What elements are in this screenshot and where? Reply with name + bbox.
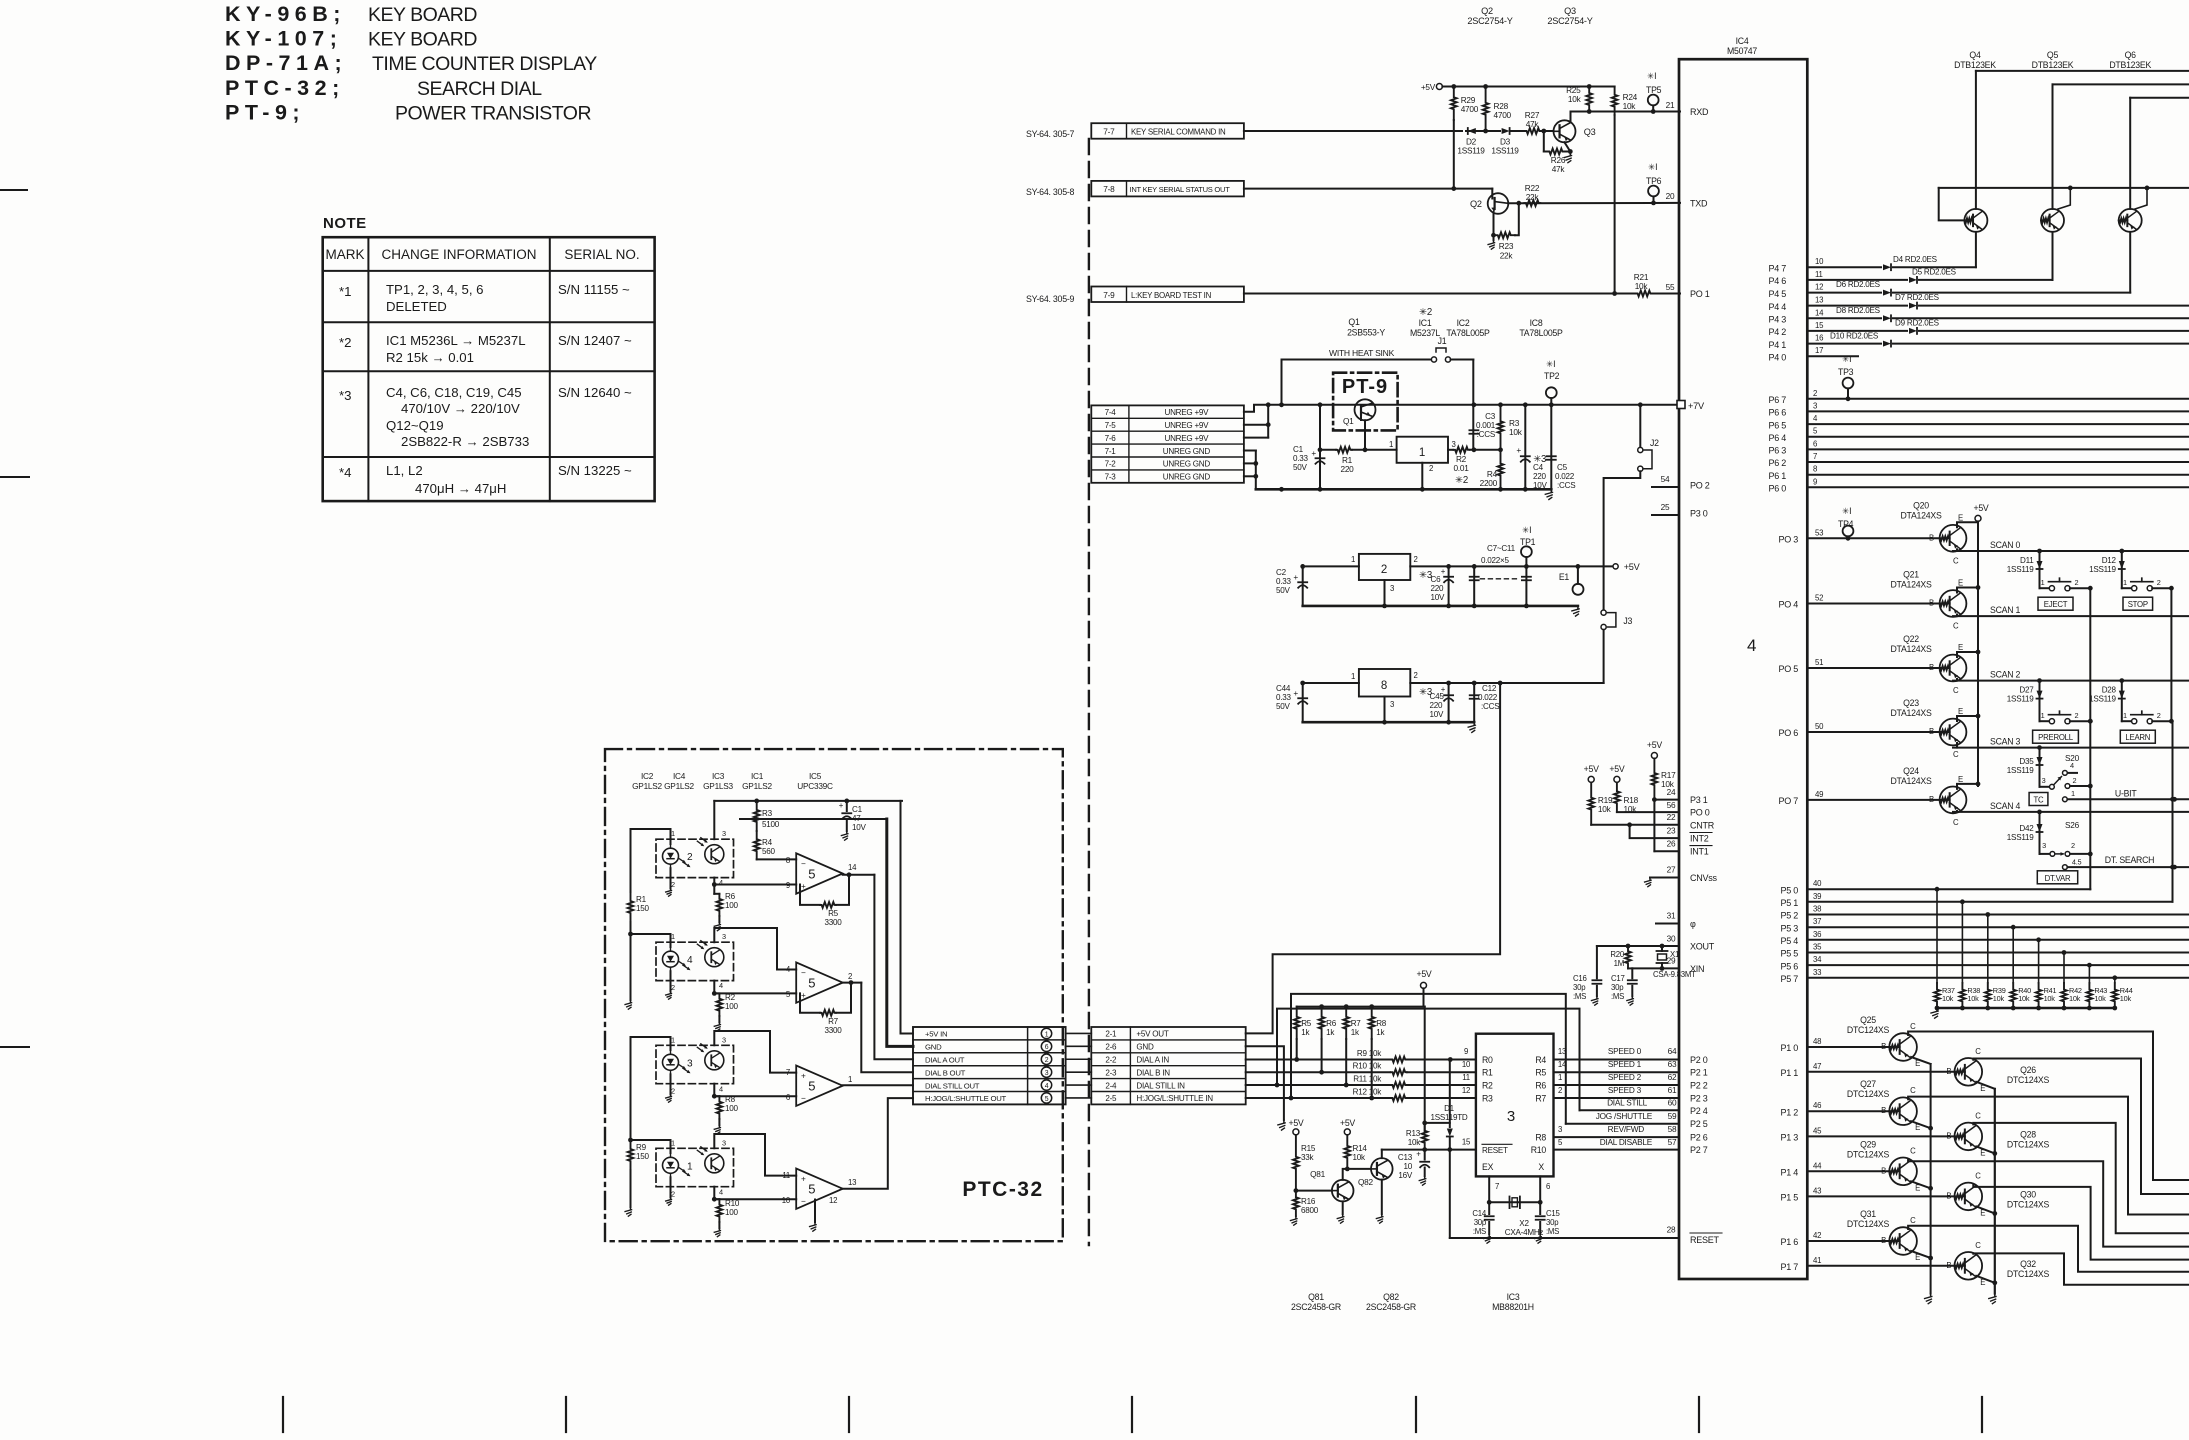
capacitor C2 0.33 50V	[1276, 566, 1307, 606]
svg-text:2: 2	[1558, 1086, 1562, 1095]
svg-text:CHANGE INFORMATION: CHANGE INFORMATION	[382, 247, 537, 262]
svg-text:C: C	[1953, 622, 1959, 631]
svg-text:D5 RD2.0ES: D5 RD2.0ES	[1912, 268, 1957, 277]
svg-text:P5 2: P5 2	[1780, 911, 1798, 921]
svg-text:C12: C12	[1482, 684, 1497, 693]
svg-text:Q1: Q1	[1343, 417, 1354, 426]
svg-text:P6 7: P6 7	[1768, 395, 1786, 405]
svg-text:B: B	[1929, 795, 1934, 804]
svg-text:P5 1: P5 1	[1780, 898, 1798, 908]
svg-text:Q30: Q30	[2020, 1189, 2036, 1199]
svg-text:C44: C44	[1276, 684, 1291, 693]
svg-text:DT.VAR: DT.VAR	[2045, 874, 2071, 883]
svg-text:2: 2	[1413, 671, 1417, 680]
svg-text:470μH → 47μH: 470μH → 47μH	[415, 481, 506, 496]
wire opto3 to op-amp C - input	[712, 1084, 796, 1099]
capacitor C4 220 10V	[1516, 405, 1547, 490]
svg-text:DTB123EK: DTB123EK	[2109, 60, 2151, 70]
ground rail regulator 2	[1303, 604, 1579, 617]
op-amp 5 section B	[786, 962, 861, 1002]
svg-text:+: +	[839, 801, 844, 810]
IC4 pin 54 stub	[1652, 475, 1679, 487]
svg-text:B: B	[1929, 727, 1934, 736]
svg-text:+5V: +5V	[1624, 562, 1641, 572]
svg-text:2: 2	[671, 1086, 675, 1095]
svg-text:1k: 1k	[1376, 1028, 1385, 1037]
svg-text:IC2: IC2	[1457, 318, 1470, 328]
svg-text:P4 4: P4 4	[1768, 302, 1786, 312]
svg-text:47: 47	[1813, 1062, 1821, 1071]
resistor R4 560	[754, 831, 796, 859]
svg-text:10V: 10V	[1430, 710, 1445, 719]
svg-text:3: 3	[722, 1035, 726, 1044]
svg-text:Q81: Q81	[1308, 1292, 1324, 1302]
svg-text:28: 28	[1667, 1226, 1676, 1235]
wire Q2 collector TXD line	[1508, 201, 1680, 206]
svg-text:62: 62	[1668, 1073, 1677, 1082]
svg-text:Q5: Q5	[2047, 50, 2059, 60]
label TC boxed	[2029, 793, 2048, 806]
svg-text:58: 58	[1668, 1125, 1677, 1134]
svg-text:C13: C13	[1398, 1153, 1413, 1162]
transistor Q32 DTC124XS	[1780, 1241, 2189, 1287]
svg-text:2: 2	[2157, 578, 2161, 587]
svg-text:C15: C15	[1546, 1209, 1560, 1218]
transistor Q5 DTB123EK	[2041, 84, 2189, 280]
svg-text:R4: R4	[1487, 470, 1498, 479]
IC regulator 8 box	[1300, 669, 1417, 722]
svg-text:C: C	[1975, 1171, 1981, 1180]
svg-text:C: C	[1975, 1047, 1981, 1056]
svg-text:15: 15	[1815, 321, 1824, 330]
resistor R23 22k feedback with ground	[1488, 203, 1519, 260]
capacitor C1 0.33 50V	[1293, 405, 1325, 490]
svg-text:+: +	[1516, 446, 1521, 455]
svg-text:SCAN 3: SCAN 3	[1990, 737, 2020, 747]
svg-text:REV/FWD: REV/FWD	[1608, 1125, 1645, 1134]
svg-text:P2 7: P2 7	[1690, 1145, 1708, 1155]
svg-text:R27: R27	[1525, 111, 1540, 120]
svg-text:2: 2	[2071, 841, 2075, 850]
svg-text:C: C	[1953, 750, 1959, 759]
svg-text::CCS: :CCS	[1477, 430, 1496, 439]
wire 7-7 to Q3 base	[1244, 130, 1462, 132]
wire JOG SHUTTLE OUT feed	[843, 1098, 913, 1189]
capacitor C13 10 16V	[1398, 1150, 1429, 1186]
svg-text:C: C	[1910, 1022, 1916, 1031]
connector 7-7 KEY SERIAL COMMAND IN	[1091, 123, 1244, 139]
IC4 P6 port lines	[1768, 389, 2189, 494]
svg-text:10k: 10k	[1353, 1153, 1367, 1162]
svg-text:6: 6	[1045, 1044, 1049, 1051]
svg-text:D2: D2	[1466, 138, 1477, 147]
svg-text:5: 5	[808, 1182, 815, 1197]
ground opto LED returns	[666, 868, 672, 1205]
wire DIAL STILL to pin 60	[1580, 1099, 1680, 1111]
svg-text:*4: *4	[339, 465, 351, 480]
svg-text:*2: *2	[339, 335, 351, 350]
svg-text:M5237L: M5237L	[1410, 328, 1440, 338]
svg-text:C1: C1	[852, 805, 863, 814]
svg-text:GP1LS3: GP1LS3	[703, 782, 733, 791]
resistor R18 10k	[1614, 782, 1638, 814]
svg-text:4: 4	[1747, 636, 1756, 655]
svg-text:DTC124XS: DTC124XS	[2007, 1139, 2050, 1149]
svg-text:5: 5	[1045, 1096, 1049, 1103]
transistor Q29 DTC124XS	[1780, 1139, 2189, 1246]
svg-text:P2 2: P2 2	[1690, 1081, 1708, 1091]
svg-text:DTA124XS: DTA124XS	[1890, 776, 1931, 786]
svg-text:Q4: Q4	[1969, 50, 1981, 60]
svg-text:7-5: 7-5	[1105, 421, 1117, 430]
svg-text:R10: R10	[1531, 1145, 1547, 1155]
svg-text:3: 3	[2042, 776, 2046, 785]
svg-text:C14: C14	[1472, 1209, 1486, 1218]
svg-text:2-6: 2-6	[1105, 1043, 1117, 1052]
capacitor C1 47 10V PTC	[839, 801, 867, 840]
svg-text:16V: 16V	[1398, 1171, 1413, 1180]
svg-text:560: 560	[762, 847, 776, 856]
svg-text:IC4: IC4	[1736, 36, 1749, 46]
diode D9 RD2.0ES	[1807, 319, 2189, 334]
svg-text:47k: 47k	[1526, 120, 1540, 129]
svg-text:C2: C2	[1276, 568, 1287, 577]
resistor R26 47k with ground	[1544, 131, 1573, 174]
svg-text:Q26: Q26	[2020, 1065, 2036, 1075]
resistor R16 6800	[1291, 1188, 1319, 1225]
svg-text:35: 35	[1813, 943, 1822, 952]
svg-text:100: 100	[725, 1208, 739, 1217]
svg-text:P2 5: P2 5	[1690, 1119, 1708, 1129]
svg-text:P1 1: P1 1	[1780, 1068, 1798, 1078]
svg-text:Q3: Q3	[1584, 127, 1596, 137]
diode D1 1SS119TD	[1425, 1060, 1468, 1150]
diode D35 1SS119	[2007, 745, 2043, 787]
svg-text:4.5: 4.5	[2072, 858, 2082, 867]
svg-text:R1: R1	[636, 895, 647, 904]
svg-text:R2: R2	[1456, 455, 1467, 464]
resistor R19 10k	[1588, 782, 1613, 824]
svg-text:+: +	[801, 1175, 806, 1184]
svg-text:*1: *1	[339, 284, 351, 299]
svg-text:R4: R4	[1535, 1055, 1546, 1065]
svg-text:R9: R9	[636, 1143, 647, 1152]
svg-text:R3: R3	[1482, 1094, 1493, 1104]
svg-text:Q12~Q19: Q12~Q19	[386, 418, 444, 433]
svg-text:P5 7: P5 7	[1780, 974, 1798, 984]
svg-text:DTA124XS: DTA124XS	[1890, 708, 1931, 718]
resistor R9 150 PTC	[625, 1037, 670, 1216]
svg-text:φ: φ	[1690, 919, 1696, 929]
svg-text:63: 63	[1668, 1060, 1677, 1069]
svg-text:2: 2	[848, 972, 852, 981]
svg-text:40: 40	[1813, 879, 1822, 888]
svg-text:E1: E1	[1559, 572, 1570, 582]
svg-text:EX: EX	[1482, 1162, 1494, 1172]
svg-text:R19: R19	[1598, 796, 1613, 805]
svg-text:12: 12	[1462, 1086, 1470, 1095]
svg-text:1: 1	[2071, 789, 2075, 798]
svg-text:D42: D42	[2019, 824, 2034, 833]
svg-text:2SB822-R → 2SB733: 2SB822-R → 2SB733	[401, 434, 529, 449]
svg-text::MS: :MS	[1473, 1227, 1486, 1236]
svg-text:8: 8	[1381, 680, 1387, 692]
svg-text:DTA124XS: DTA124XS	[1890, 580, 1931, 590]
svg-text:+: +	[1311, 449, 1316, 458]
wire heat sink line left leg	[1281, 404, 1283, 406]
svg-text:D4 RD2.0ES: D4 RD2.0ES	[1893, 255, 1938, 264]
svg-text:1k: 1k	[1351, 1028, 1360, 1037]
svg-text:R17: R17	[1661, 771, 1676, 780]
svg-text:IC1: IC1	[1419, 318, 1432, 328]
svg-text:CNVss: CNVss	[1690, 873, 1718, 883]
svg-text:43: 43	[1813, 1186, 1821, 1195]
wire RESET to IC4 pin 28	[1450, 1150, 1679, 1238]
svg-text:16: 16	[1815, 334, 1823, 343]
svg-text:150: 150	[636, 1152, 650, 1161]
transistor Q30 DTC124XS	[1780, 1171, 2189, 1259]
svg-text:R10 10k: R10 10k	[1353, 1062, 1383, 1071]
resistor R17 10k	[1652, 759, 1676, 800]
IC4 pin 11 P4 6	[1768, 270, 1822, 286]
svg-text:P5 4: P5 4	[1780, 936, 1798, 946]
svg-text:X1: X1	[1670, 950, 1679, 959]
svg-text:4700: 4700	[1461, 105, 1479, 114]
svg-text:5: 5	[808, 976, 815, 991]
wire PO 0 pin 56 line	[1617, 801, 1679, 812]
svg-text:P4 0: P4 0	[1768, 352, 1786, 362]
transistor Q6 DTB123EK	[2119, 98, 2189, 293]
svg-text:UNREG +9V: UNREG +9V	[1164, 421, 1209, 430]
svg-text:P2 0: P2 0	[1690, 1055, 1708, 1065]
diode D3 1SS119	[1491, 128, 1520, 156]
resistor R5 3300 feedback	[800, 875, 849, 927]
svg-text:E: E	[1958, 707, 1963, 716]
registration tick marks	[0, 190, 1982, 1432]
svg-text:+5V: +5V	[1609, 764, 1624, 774]
svg-text:10k: 10k	[2044, 994, 2056, 1003]
svg-text:R6: R6	[725, 892, 736, 901]
svg-text:+5V IN: +5V IN	[925, 1030, 947, 1039]
wire JOG/SHUTTLE to pin 59	[1566, 1112, 1679, 1124]
IC4 pin 25 stub	[1652, 503, 1679, 515]
svg-text:P6 1: P6 1	[1768, 471, 1786, 481]
svg-text:6800: 6800	[1301, 1206, 1319, 1215]
svg-text:+5V: +5V	[1421, 83, 1436, 92]
svg-text:1SS119: 1SS119	[1457, 147, 1485, 156]
svg-text:✳I: ✳I	[1546, 359, 1555, 369]
svg-text:0.022×5: 0.022×5	[1481, 556, 1509, 565]
svg-text:J2: J2	[1650, 438, 1659, 448]
svg-text:2-1: 2-1	[1105, 1030, 1117, 1039]
wire opto4 riser to op-amp D + input	[714, 1134, 796, 1176]
svg-text:2: 2	[1413, 555, 1417, 564]
svg-text:PTC-32;: PTC-32;	[225, 76, 345, 100]
svg-text:10k: 10k	[1598, 805, 1612, 814]
svg-text:TA78L005P: TA78L005P	[1519, 328, 1563, 338]
svg-text:PT-9;: PT-9;	[225, 100, 305, 124]
svg-text:38: 38	[1813, 905, 1821, 914]
svg-text:2: 2	[671, 880, 675, 889]
wire U-BIT line	[2067, 789, 2189, 802]
wire key matrix column B	[2170, 588, 2175, 902]
svg-text:DTC124XS: DTC124XS	[1847, 1025, 1890, 1035]
svg-text:P4 6: P4 6	[1768, 276, 1786, 286]
svg-text:R21: R21	[1634, 273, 1649, 282]
resistor R8 1k	[1369, 1007, 1387, 1098]
svg-text:2: 2	[671, 1189, 675, 1198]
svg-text:150: 150	[636, 904, 650, 913]
svg-text:3: 3	[722, 1138, 726, 1147]
svg-text:U-BIT: U-BIT	[2115, 789, 2137, 799]
svg-text:P1 6: P1 6	[1780, 1237, 1798, 1247]
svg-text:Q25: Q25	[1860, 1015, 1876, 1025]
labels Q81 Q82 IC3 bottom	[1291, 1292, 1534, 1312]
svg-text:C16: C16	[1573, 974, 1587, 983]
svg-text:SPEED 3: SPEED 3	[1608, 1086, 1642, 1095]
resistor R29 4700	[1451, 87, 1479, 189]
svg-text:X: X	[1538, 1162, 1544, 1172]
capacitor C3 0.001 :CCS	[1469, 360, 1495, 450]
diode D6 RD2.0ES	[1807, 280, 2130, 296]
svg-text:R1: R1	[1342, 456, 1353, 465]
svg-text:INT1: INT1	[1690, 847, 1709, 857]
svg-text:R8: R8	[1535, 1133, 1546, 1143]
svg-text:DELETED: DELETED	[386, 299, 447, 314]
svg-text:DTB123EK: DTB123EK	[1954, 60, 1996, 70]
svg-text:DP-71A;: DP-71A;	[225, 51, 347, 75]
svg-text:IC4: IC4	[673, 772, 686, 781]
PTC-32 output connector	[913, 1027, 1066, 1104]
svg-text:R25: R25	[1566, 86, 1581, 95]
svg-text:6: 6	[1813, 439, 1817, 448]
svg-text:TP3: TP3	[1838, 367, 1854, 377]
svg-text:8: 8	[786, 856, 790, 865]
svg-text:2-3: 2-3	[1105, 1068, 1117, 1077]
svg-text:1SS119: 1SS119	[1491, 147, 1519, 156]
svg-text:TP2: TP2	[1544, 371, 1560, 381]
wire DIAL DISABLE line	[1554, 1138, 1680, 1150]
svg-text::MS: :MS	[1611, 992, 1624, 1001]
svg-text:INT KEY SERIAL STATUS OUT: INT KEY SERIAL STATUS OUT	[1130, 185, 1231, 194]
svg-text:DIAL B IN: DIAL B IN	[1136, 1068, 1170, 1077]
svg-text:PREROLL: PREROLL	[2038, 733, 2074, 742]
svg-text:61: 61	[1668, 1086, 1677, 1095]
resistor R10 10k	[1353, 1060, 1476, 1075]
svg-text:R15: R15	[1301, 1144, 1316, 1153]
svg-text:+: +	[1416, 1150, 1421, 1159]
svg-text:TP1: TP1	[1520, 537, 1536, 547]
svg-text:DIAL B OUT: DIAL B OUT	[925, 1068, 966, 1077]
svg-text:S/N 13225 ~: S/N 13225 ~	[558, 463, 632, 478]
svg-text:33k: 33k	[1301, 1153, 1315, 1162]
wire 7-9 PO1 line	[1244, 291, 1636, 296]
svg-text:9: 9	[1813, 477, 1817, 486]
svg-text:P2 3: P2 3	[1690, 1094, 1708, 1104]
svg-text:2SC2458-GR: 2SC2458-GR	[1366, 1302, 1416, 1312]
svg-text:Q22: Q22	[1903, 634, 1919, 644]
svg-text:R28: R28	[1494, 102, 1509, 111]
capacitor C15 30p	[1535, 1202, 1561, 1243]
svg-text:P1 4: P1 4	[1780, 1168, 1798, 1178]
svg-text:10k: 10k	[2069, 994, 2081, 1003]
svg-text:L:KEY BOARD TEST IN: L:KEY BOARD TEST IN	[1131, 291, 1212, 300]
svg-text:PO 3: PO 3	[1778, 535, 1798, 545]
svg-text:1: 1	[1351, 672, 1355, 681]
svg-text:47k: 47k	[1552, 165, 1566, 174]
svg-text:10: 10	[782, 1196, 791, 1205]
svg-text:R0: R0	[1482, 1055, 1493, 1065]
svg-text:R16: R16	[1301, 1197, 1316, 1206]
svg-text:+: +	[1293, 689, 1298, 698]
svg-text:B: B	[1929, 663, 1934, 672]
svg-text:4: 4	[719, 981, 723, 990]
svg-text:P6 6: P6 6	[1768, 408, 1786, 418]
op-amp 5 section C	[786, 1066, 852, 1106]
svg-text:P3 0: P3 0	[1690, 509, 1708, 519]
svg-text:DIAL DISABLE: DIAL DISABLE	[1600, 1138, 1653, 1147]
svg-text:P6 2: P6 2	[1768, 458, 1786, 468]
svg-text:R7: R7	[1535, 1094, 1546, 1104]
svg-text:R6: R6	[1535, 1081, 1546, 1091]
svg-text:GND: GND	[1136, 1043, 1154, 1052]
svg-text:14: 14	[1815, 308, 1824, 317]
svg-text:R24: R24	[1623, 93, 1638, 102]
svg-text:KEY BOARD: KEY BOARD	[368, 4, 477, 26]
svg-text:✳2: ✳2	[1419, 307, 1432, 318]
svg-text:3: 3	[1390, 700, 1394, 709]
svg-text:+: +	[1441, 567, 1446, 576]
svg-text:1SS119TD: 1SS119TD	[1431, 1113, 1468, 1122]
svg-text:R5: R5	[1301, 1019, 1312, 1028]
diode D28 1SS119	[2089, 678, 2125, 721]
resistor R9 10k	[1357, 1047, 1476, 1062]
svg-text:IC8: IC8	[1530, 318, 1543, 328]
svg-text:7-3: 7-3	[1105, 473, 1117, 482]
svg-text:2: 2	[2075, 578, 2079, 587]
resistor R2 0.01	[1448, 447, 1503, 486]
svg-text:B: B	[1881, 1236, 1886, 1245]
IC U4 M50747 outline	[1679, 36, 1807, 1279]
svg-text:C: C	[1953, 556, 1959, 565]
svg-text:1: 1	[848, 1075, 852, 1084]
svg-text:37: 37	[1813, 917, 1821, 926]
svg-text:+5V: +5V	[1340, 1118, 1355, 1128]
svg-text:3: 3	[722, 932, 726, 941]
svg-text:5100: 5100	[762, 820, 780, 829]
svg-text:7: 7	[1813, 452, 1817, 461]
svg-text:7-4: 7-4	[1105, 408, 1117, 417]
svg-text:D6 RD2.0ES: D6 RD2.0ES	[1836, 280, 1881, 289]
svg-text:17: 17	[1815, 346, 1823, 355]
resistor R11 10k	[1353, 1073, 1476, 1088]
wire emitter rail left with ground	[1925, 1064, 1933, 1304]
transistor Q21 DTA124XS	[1778, 570, 2189, 631]
svg-text:1k: 1k	[1326, 1028, 1335, 1037]
label DT.VAR boxed	[2037, 871, 2077, 884]
svg-text:✳I: ✳I	[1842, 354, 1851, 364]
svg-text:CSA-9.83MT: CSA-9.83MT	[1653, 970, 1696, 979]
wire +5V rail top	[1442, 84, 1614, 89]
svg-text:10k: 10k	[1509, 428, 1523, 437]
svg-text:✳I: ✳I	[1648, 162, 1657, 172]
svg-text:P4 5: P4 5	[1768, 289, 1786, 299]
test point TP2	[1544, 359, 1560, 405]
wire P3 1 pin 24 line	[1652, 788, 1679, 802]
terminal +5V output	[1613, 562, 1641, 572]
switch S1 EJECT	[2038, 578, 2093, 610]
svg-text:22k: 22k	[1526, 193, 1540, 202]
